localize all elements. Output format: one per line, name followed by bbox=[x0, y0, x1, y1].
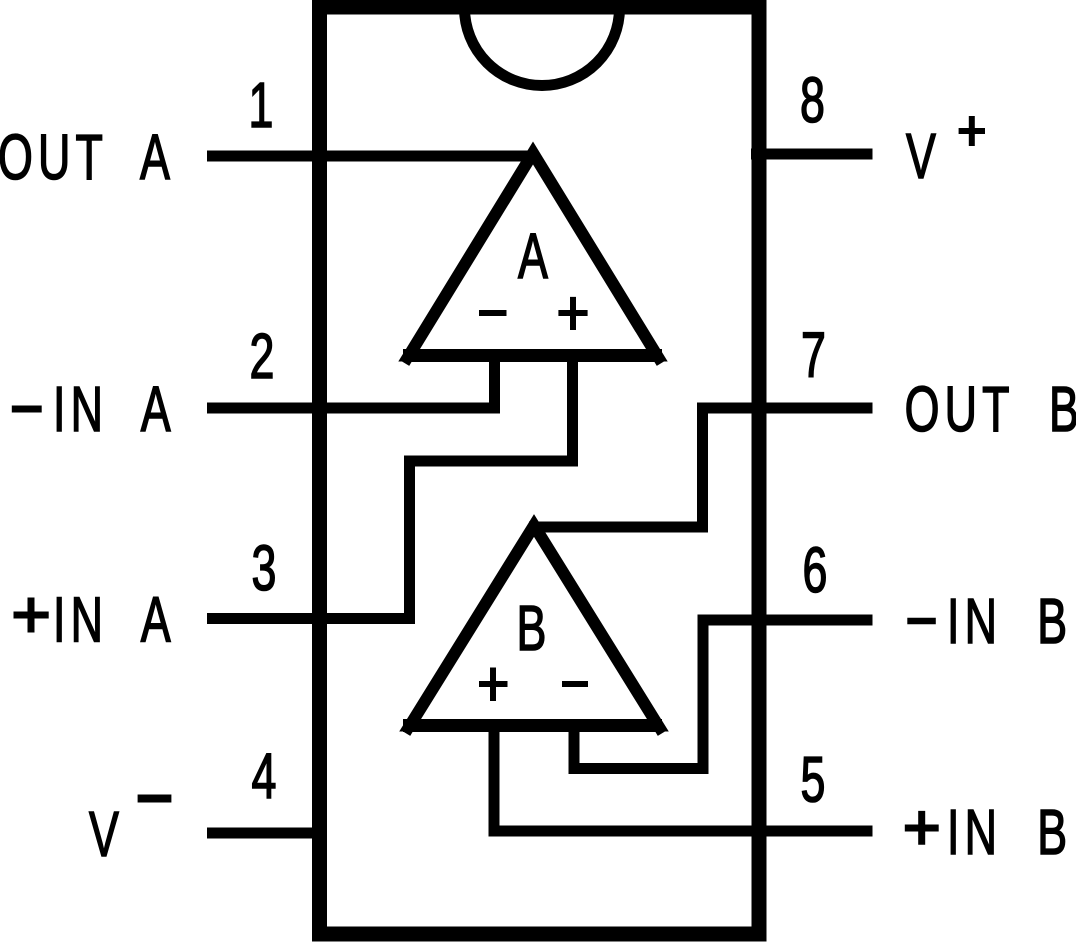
svg-text:8: 8 bbox=[800, 64, 825, 136]
svg-text:5: 5 bbox=[801, 744, 826, 816]
svg-text:IN A: IN A bbox=[53, 373, 176, 445]
svg-text:2: 2 bbox=[250, 320, 275, 392]
svg-text:A: A bbox=[518, 220, 548, 292]
svg-text:IN A: IN A bbox=[53, 584, 176, 656]
svg-text:IN B: IN B bbox=[947, 585, 1072, 657]
wire pin 8 V+ stub bbox=[751, 149, 873, 160]
wire pin 2 -IN A to op-amp A inverting input bbox=[207, 350, 495, 408]
op-amp A triangle bbox=[409, 153, 657, 356]
svg-text:V: V bbox=[89, 798, 119, 870]
wire pin 1 OUT A to op-amp A output apex bbox=[207, 151, 533, 162]
label -IN A minus sign bbox=[12, 406, 42, 413]
svg-text:OUT B: OUT B bbox=[905, 373, 1076, 445]
label -IN B minus sign bbox=[907, 618, 936, 625]
wire pin 3 +IN A to op-amp A non-inverting input bbox=[207, 350, 573, 619]
op-amp A plus sign bbox=[558, 297, 587, 330]
svg-text:1: 1 bbox=[249, 69, 274, 141]
label V- superscript minus bbox=[138, 795, 172, 803]
label +IN A plus sign bbox=[14, 598, 49, 633]
IC package body U1 (8-pin DIP outline) bbox=[320, 7, 760, 934]
svg-text:7: 7 bbox=[801, 319, 826, 391]
svg-text:3: 3 bbox=[252, 532, 277, 604]
wire pin 7 OUT B to op-amp B output apex bbox=[529, 408, 873, 527]
label +IN B plus sign bbox=[905, 811, 939, 845]
wire pin 4 V- stub bbox=[207, 828, 327, 839]
label V+ superscript plus bbox=[959, 116, 985, 146]
svg-text:B: B bbox=[517, 592, 547, 664]
svg-text:4: 4 bbox=[252, 740, 277, 812]
op-amp B plus sign bbox=[479, 668, 508, 702]
op-amp B triangle bbox=[410, 526, 658, 726]
svg-text:6: 6 bbox=[803, 534, 828, 606]
op-amp A base corner stubs bbox=[405, 356, 662, 364]
op-amp B minus sign bbox=[562, 681, 588, 687]
svg-text:IN B: IN B bbox=[947, 796, 1072, 868]
wire pin 5 +IN B to op-amp B non-inverting input bbox=[494, 720, 873, 831]
op-amp B base bar bbox=[403, 719, 662, 732]
svg-text:OUT A: OUT A bbox=[0, 121, 175, 193]
svg-text:V: V bbox=[906, 120, 936, 192]
wire pin 6 -IN B to op-amp B inverting input bbox=[574, 620, 873, 769]
op-amp A base bar bbox=[403, 349, 662, 362]
op-amp A minus sign bbox=[479, 310, 507, 316]
pin-1 index notch (top-center semicircle) bbox=[465, 0, 620, 86]
op-amp B base corner stubs bbox=[406, 726, 663, 734]
